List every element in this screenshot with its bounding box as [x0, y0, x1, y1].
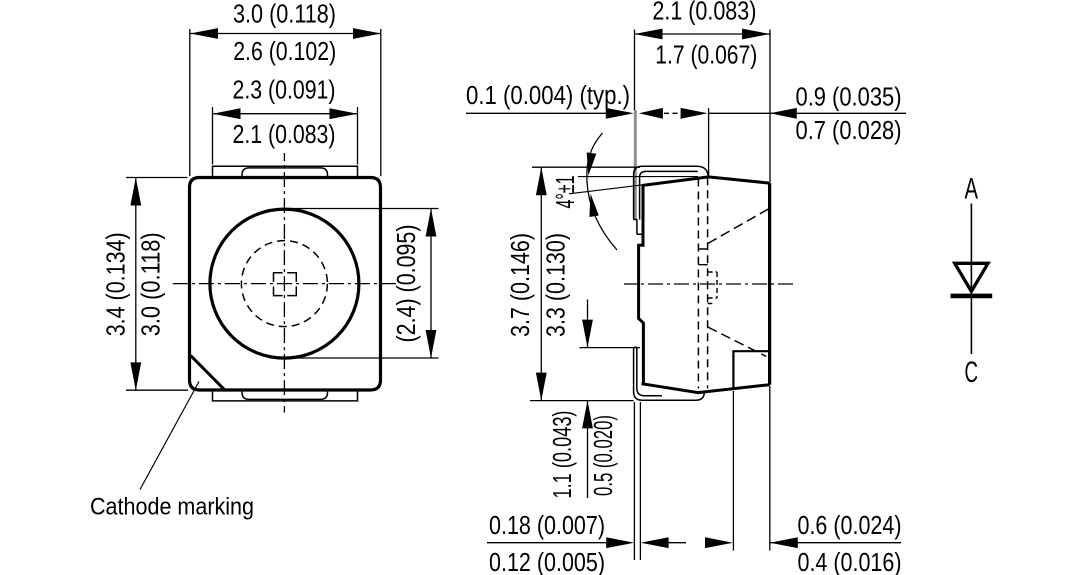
lens hidden line b: [707, 177, 709, 388]
svg-text:2.3 (0.091): 2.3 (0.091): [233, 77, 336, 105]
top lead (top view): [213, 166, 358, 177]
label C cathode: [965, 356, 979, 389]
diode anode lead: [970, 204, 972, 264]
side body top edge: [642, 177, 770, 186]
side centerline: [624, 283, 797, 285]
svg-text:0.9 (0.035): 0.9 (0.035): [796, 84, 902, 112]
svg-text:2.1 (0.083): 2.1 (0.083): [233, 121, 336, 149]
angle reference lines: [569, 177, 709, 194]
angle arc: [587, 133, 617, 250]
svg-text:0.6 (0.024): 0.6 (0.024): [798, 512, 902, 540]
label A anode: [965, 173, 979, 206]
top lead (side) inner: [640, 171, 698, 219]
dim width 3.0/2.6: [190, 0, 381, 176]
svg-text:Cathode marking: Cathode marking: [90, 494, 254, 521]
top lead tab: [242, 168, 328, 177]
svg-text:0.1 (0.004) (typ.): 0.1 (0.004) (typ.): [466, 82, 630, 110]
svg-text:3.3 (0.130): 3.3 (0.130): [542, 233, 570, 337]
cathode chamfer mark: [191, 356, 225, 390]
dim lead bend 1.1/0.5: [549, 300, 640, 499]
dim lens (2.4): [284, 209, 438, 359]
top lead tip steps: [634, 220, 643, 235]
vertical centerline: [283, 153, 285, 413]
inner dashed circle: [241, 241, 327, 327]
svg-text:0.4 (0.016): 0.4 (0.016): [798, 549, 902, 575]
dim gap 0.1 typ: [466, 82, 680, 119]
package top view body: [190, 178, 381, 391]
bottom lead (side) outer: [634, 347, 705, 400]
side body bottom edge: [642, 384, 770, 393]
svg-text:4°±1: 4°±1: [552, 176, 580, 209]
top lead (side) outer: [634, 166, 709, 219]
dim notch 0.6/0.4: [705, 386, 902, 575]
chip hidden rect: [708, 272, 717, 298]
dim height 3.4/3.0: [103, 178, 188, 391]
reflector cone lower: [708, 327, 766, 356]
bottom lead tip tick: [634, 346, 637, 348]
svg-text:A: A: [965, 173, 979, 206]
svg-text:0.12 (0.005): 0.12 (0.005): [489, 549, 605, 575]
cathode leader line: [140, 382, 199, 490]
svg-text:1.7 (0.067): 1.7 (0.067): [655, 42, 757, 70]
horizontal centerline: [172, 283, 398, 285]
dim lead thickness 0.18/0.12: [487, 402, 686, 575]
svg-text:0.7 (0.028): 0.7 (0.028): [796, 117, 902, 145]
svg-text:0.18 (0.007): 0.18 (0.007): [489, 512, 605, 540]
svg-text:2.1 (0.083): 2.1 (0.083): [652, 0, 756, 25]
diode cathode lead: [970, 298, 972, 354]
label Cathode marking: [90, 494, 254, 521]
dim depth 2.1/1.7: [635, 0, 771, 182]
lens hidden line a: [697, 179, 699, 389]
side body right edge: [768, 183, 771, 385]
svg-text:(2.4) (0.095): (2.4) (0.095): [393, 225, 421, 343]
lens circle: [210, 209, 359, 358]
bottom lead (top view): [213, 391, 358, 401]
svg-text:2.6 (0.102): 2.6 (0.102): [233, 38, 336, 66]
svg-text:3.0 (0.118): 3.0 (0.118): [137, 232, 165, 336]
svg-text:0.5 (0.020): 0.5 (0.020): [590, 415, 618, 496]
diode cathode bar: [951, 294, 993, 299]
dim lead width 2.3/2.1: [213, 77, 358, 165]
dim 0.9/0.7: [681, 84, 906, 177]
bottom lead tab: [242, 391, 328, 399]
dim height 3.7/3.3: [507, 167, 640, 400]
svg-text:C: C: [965, 356, 979, 389]
reflector cone upper: [708, 209, 769, 244]
gray extension bar: [634, 110, 637, 220]
svg-text:1.1 (0.043): 1.1 (0.043): [549, 411, 577, 499]
reflector rim ticks: [698, 249, 712, 304]
chip square (dashed): [274, 273, 297, 296]
diode triangle: [955, 263, 988, 291]
bottom lead (side) inner: [637, 347, 662, 395]
bottom-right notch: [733, 351, 769, 389]
diode inner line: [970, 263, 972, 295]
svg-text:3.4 (0.134): 3.4 (0.134): [103, 232, 131, 336]
side body left edge: [639, 185, 644, 384]
label 4 deg: [552, 176, 580, 209]
svg-text:3.0 (0.118): 3.0 (0.118): [233, 0, 336, 28]
svg-text:3.7 (0.146): 3.7 (0.146): [507, 233, 535, 337]
